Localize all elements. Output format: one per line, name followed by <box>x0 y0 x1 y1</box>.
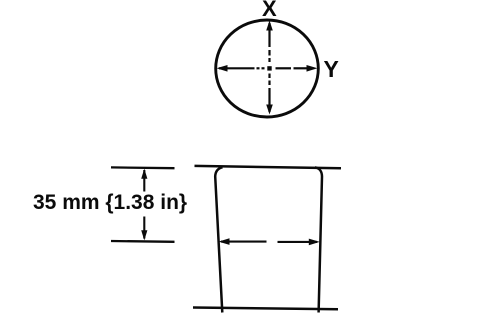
svg-text:X: X <box>262 0 277 21</box>
svg-text:35 mm {1.38 in}: 35 mm {1.38 in} <box>33 191 187 214</box>
svg-text:Y: Y <box>324 56 339 82</box>
